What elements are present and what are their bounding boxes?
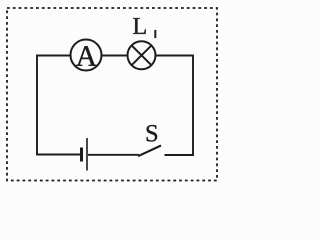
wire: battery to bottom-left corner bbox=[36, 154, 80, 156]
lamp L1: circle bbox=[128, 41, 156, 69]
dashed boundary frame bbox=[7, 8, 217, 181]
lamp L1: cross diagonal NE-SW bbox=[132, 45, 152, 65]
label subscript 1 of L1 bbox=[154, 30, 156, 38]
wire: bottom-right corner to switch fixed contact bbox=[165, 154, 194, 156]
wire: top-left segment to ammeter bbox=[36, 55, 70, 57]
wire: lamp to top-right corner bbox=[156, 55, 194, 57]
wire: right vertical bbox=[192, 56, 194, 156]
ammeter U: circle bbox=[71, 40, 102, 71]
wire: segment ammeter to lamp bbox=[102, 55, 128, 57]
wire: switch pivot to battery positive plate bbox=[88, 154, 139, 156]
lamp L1: cross diagonal NW-SE bbox=[132, 45, 152, 65]
wire: left vertical bbox=[36, 56, 38, 155]
battery cell: long thin positive plate bbox=[86, 138, 88, 171]
ammeter U: letter A bbox=[76, 46, 97, 66]
switch S: lever blade bbox=[138, 146, 161, 157]
label L of L1 bbox=[133, 18, 146, 34]
label S bbox=[147, 125, 158, 142]
battery cell: short thick negative plate bbox=[80, 148, 83, 162]
